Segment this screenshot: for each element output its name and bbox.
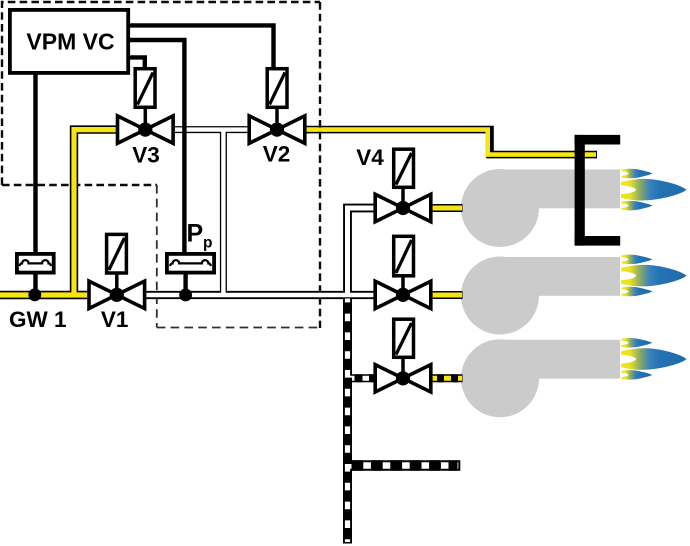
junction dot GW1 bbox=[28, 288, 41, 301]
dashed enclosure box 1 (VPM VC + V2/V3) bbox=[2, 2, 320, 328]
valve V2 center dot bbox=[270, 123, 284, 137]
yellow pipe cores bbox=[0, 130, 462, 379]
valve V4 body bbox=[375, 194, 431, 221]
yellow pipe V2 to burner manifold (core) bbox=[304, 130, 597, 155]
striped yellow pipe to burner 3 (black base) bbox=[430, 374, 463, 382]
striped future pipe vertical (black base) bbox=[343, 298, 352, 544]
valve V4 stem bbox=[401, 186, 405, 204]
burner 1 (top) blower body bbox=[461, 169, 620, 247]
valve V4 actuator bbox=[394, 149, 414, 187]
black dashes on burner 3 inlet pipe bbox=[437, 374, 444, 382]
valve V2 actuator bbox=[267, 69, 287, 108]
pressure switch GW1 bbox=[17, 254, 54, 273]
control line VPM to GW1 bbox=[33, 73, 37, 254]
svg-text:V4: V4 bbox=[356, 145, 384, 170]
control line VPM to V3 actuator bbox=[129, 57, 145, 69]
svg-text:VPM VC: VPM VC bbox=[26, 29, 114, 55]
yellow pipe V4 to burner 1 (black base) bbox=[430, 204, 463, 212]
striped branch dead-end (black base) bbox=[347, 460, 460, 470]
burner 2 valve center dot bbox=[396, 288, 410, 302]
valve V3 center dot bbox=[138, 123, 152, 137]
white pipe riser to V4 (black base) bbox=[348, 208, 377, 295]
yellow riser pipe to V3 (black base) bbox=[74, 130, 120, 299]
striped branch to burner 3 valve (black base) bbox=[349, 374, 376, 382]
yellow pipe V2 to burner manifold (black base) bbox=[302, 130, 597, 155]
control line VPM to Pp sensor bbox=[129, 40, 184, 254]
GW1 stub to pipe junction bbox=[33, 273, 37, 295]
svg-text:V3: V3 bbox=[132, 143, 160, 168]
white pipe V1 outlet (black base) bbox=[143, 291, 376, 299]
burner 3 valve body bbox=[375, 365, 431, 392]
valve V1 center dot bbox=[110, 288, 124, 302]
burner 3 valve stem bbox=[401, 356, 405, 374]
white pipe V3-V2 (black base) bbox=[144, 126, 278, 133]
burner 2 valve stem bbox=[401, 275, 405, 291]
burner 2 valve body bbox=[375, 281, 431, 308]
control line VPM to V2 actuator bbox=[129, 25, 274, 69]
valve V3 body bbox=[118, 116, 174, 143]
svg-text:P: P bbox=[187, 220, 204, 248]
valve V1 stem bbox=[115, 273, 119, 291]
valve V3 stem bbox=[144, 107, 148, 126]
flame cluster burner 1 bbox=[621, 169, 687, 211]
burner manifold bracket bbox=[575, 135, 621, 246]
junction dot Pp bbox=[179, 289, 192, 302]
burner 3 valve actuator bbox=[394, 319, 414, 357]
svg-text:GW 1: GW 1 bbox=[9, 307, 67, 332]
svg-text:V2: V2 bbox=[263, 142, 291, 167]
valve V4 center dot bbox=[396, 201, 410, 215]
svg-text:p: p bbox=[203, 235, 212, 252]
pressure sensor Pp bbox=[167, 254, 214, 273]
valve V1 actuator bbox=[107, 234, 127, 273]
valve V1 body bbox=[89, 281, 145, 308]
white pipe cores bbox=[145, 130, 375, 295]
flame cluster burner 2 bbox=[621, 255, 687, 297]
valve V2 body bbox=[249, 116, 305, 143]
striped pipe white cores bbox=[348, 299, 459, 543]
striped pipe black dashes bbox=[348, 302, 458, 543]
burner 2 valve actuator bbox=[394, 236, 414, 275]
flame cluster burner 3 bbox=[621, 338, 687, 380]
valve V3 actuator bbox=[135, 69, 155, 108]
Pp stub to pipe junction bbox=[183, 273, 187, 295]
dashed enclosure box 2 (Pp section) bbox=[157, 185, 320, 328]
yellow gas inlet pipe (black base) bbox=[0, 291, 95, 299]
yellow pipe to burner 2 (black base) bbox=[430, 291, 463, 299]
valve V2 stem bbox=[275, 107, 279, 126]
burner 2 (middle) blower body bbox=[461, 257, 620, 335]
controller box VPM VC bbox=[10, 10, 128, 73]
burner 3 (bottom) blower body bbox=[461, 339, 620, 417]
burner 3 valve center dot bbox=[396, 371, 410, 385]
white pipe tee down at x=222 (black base) bbox=[220, 130, 227, 295]
svg-text:V1: V1 bbox=[101, 307, 129, 332]
